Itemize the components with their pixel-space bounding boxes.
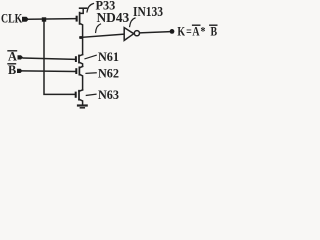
svg-text:B: B <box>8 63 16 77</box>
svg-text:IN133: IN133 <box>133 4 163 19</box>
svg-text:N62: N62 <box>98 66 119 80</box>
svg-text:ND43: ND43 <box>97 10 130 25</box>
svg-text:*: * <box>201 26 206 39</box>
svg-text:CLK: CLK <box>1 12 23 25</box>
svg-text:K: K <box>177 26 185 39</box>
svg-text:A: A <box>8 49 17 63</box>
svg-text:=: = <box>186 26 192 39</box>
svg-text:A: A <box>192 26 200 39</box>
svg-text:N61: N61 <box>98 50 119 64</box>
svg-text:B: B <box>211 26 218 39</box>
svg-text:N63: N63 <box>98 88 119 102</box>
